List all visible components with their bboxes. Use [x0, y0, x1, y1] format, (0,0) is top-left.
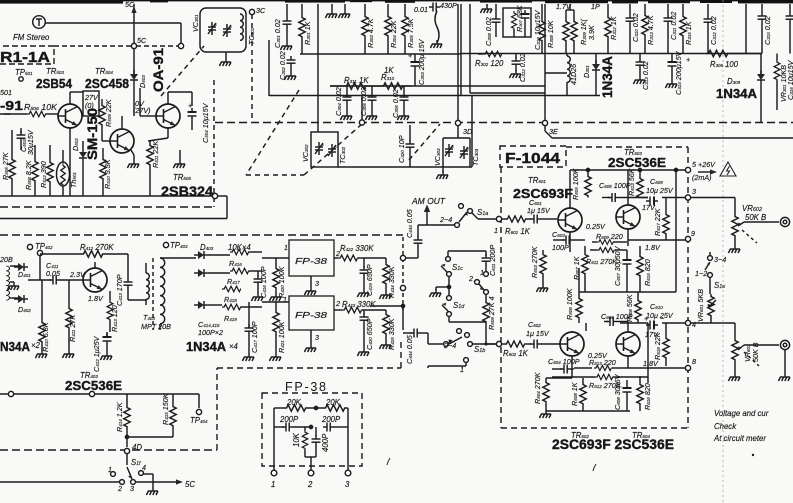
svg-text:C419 650P: C419 650P — [365, 264, 374, 296]
svg-text:501: 501 — [0, 88, 12, 97]
svg-text:R605 100K: R605 100K — [571, 167, 580, 200]
svg-text:R609 27K 4: R609 27K 4 — [487, 296, 496, 330]
svg-text:R505 27K: R505 27K — [1, 151, 10, 180]
svg-text:R308 10K: R308 10K — [546, 19, 555, 48]
svg-text:Voltage and cur: Voltage and cur — [714, 409, 769, 418]
svg-text:2~4: 2~4 — [443, 341, 456, 350]
svg-text:2: 2 — [307, 480, 313, 489]
svg-text:(2mA): (2mA) — [692, 173, 712, 182]
svg-text:R509 22K: R509 22K — [104, 98, 113, 127]
svg-text:R412 270K: R412 270K — [80, 243, 114, 252]
svg-text:SM-150: SM-150 — [84, 108, 100, 160]
svg-text:R411 27K: R411 27K — [68, 314, 77, 342]
svg-text:3~4: 3~4 — [714, 255, 726, 264]
svg-text:C320 10P: C320 10P — [397, 135, 406, 163]
svg-text:C444 0.05: C444 0.05 — [405, 208, 414, 238]
svg-text:R425 330K: R425 330K — [387, 317, 396, 350]
svg-text:×2: ×2 — [31, 341, 41, 350]
svg-text:3C: 3C — [256, 6, 266, 15]
svg-text:R607 1K: R607 1K — [572, 255, 581, 280]
svg-text:C417 100P: C417 100P — [250, 321, 259, 353]
svg-text:2SC693F: 2SC693F — [513, 186, 573, 201]
svg-text:R301 1K: R301 1K — [303, 20, 312, 45]
svg-text:C605 100P: C605 100P — [599, 181, 631, 190]
svg-text:1.8V: 1.8V — [643, 359, 659, 368]
svg-text:C312 0.02: C312 0.02 — [709, 16, 718, 45]
svg-text:R311 1K: R311 1K — [344, 76, 369, 85]
svg-text:R512 390: R512 390 — [39, 161, 48, 188]
svg-text:C310 0.02: C310 0.02 — [631, 13, 640, 42]
svg-text:2: 2 — [468, 274, 473, 283]
svg-text:1~2: 1~2 — [695, 269, 707, 278]
svg-text:R315 1K: R315 1K — [684, 20, 693, 45]
svg-text:R608 1K: R608 1K — [570, 381, 579, 406]
svg-text:3: 3 — [315, 279, 319, 288]
svg-text:C304 0.02: C304 0.02 — [334, 87, 343, 116]
svg-text:C444 0.05: C444 0.05 — [405, 334, 414, 364]
svg-text:R434 330K: R434 330K — [387, 265, 396, 298]
svg-text:2SC458: 2SC458 — [85, 76, 129, 91]
svg-text:R604 270K: R604 270K — [533, 371, 542, 404]
svg-text:R616 820: R616 820 — [643, 383, 652, 410]
svg-text:2: 2 — [117, 484, 122, 493]
svg-text:R609 220: R609 220 — [596, 232, 623, 241]
svg-text:R414 1.2K: R414 1.2K — [115, 401, 124, 432]
svg-text:FP-38: FP-38 — [295, 257, 328, 266]
svg-text:1: 1 — [494, 226, 498, 235]
svg-text:C305 0.02: C305 0.02 — [359, 87, 368, 116]
svg-text:R415 150K: R415 150K — [161, 392, 170, 425]
svg-text:R618 22K: R618 22K — [653, 331, 662, 360]
svg-text:R615 820: R615 820 — [643, 259, 652, 286]
svg-text:3E: 3E — [549, 127, 558, 136]
svg-text:2~4: 2~4 — [439, 215, 452, 224]
svg-text:−: − — [660, 314, 664, 323]
svg-text:C312 0.02: C312 0.02 — [518, 53, 527, 82]
svg-text:100P: 100P — [552, 243, 569, 252]
svg-text:+: + — [644, 314, 648, 323]
svg-text:1: 1 — [108, 465, 112, 474]
svg-text:C413 170P: C413 170P — [115, 274, 124, 306]
svg-text:R410 6.8K: R410 6.8K — [41, 321, 50, 352]
svg-text:R613 220: R613 220 — [589, 358, 616, 367]
svg-text:20B: 20B — [0, 255, 13, 264]
svg-text:C604 100P: C604 100P — [548, 357, 580, 366]
svg-text:8: 8 — [692, 357, 696, 366]
svg-text:200P: 200P — [321, 415, 341, 424]
svg-text:R1-1A: R1-1A — [0, 49, 50, 66]
svg-text:R303 4.7K: R303 4.7K — [366, 17, 375, 48]
svg-text:1: 1 — [284, 243, 288, 252]
svg-text:2SC536E: 2SC536E — [65, 378, 122, 393]
svg-text:R601 1K: R601 1K — [505, 227, 531, 236]
svg-text:1.7V: 1.7V — [556, 2, 572, 11]
svg-text:20K: 20K — [325, 398, 341, 407]
svg-text:10μ 25V: 10μ 25V — [646, 186, 674, 195]
svg-text:3D: 3D — [463, 127, 472, 136]
svg-text:+: + — [686, 55, 690, 64]
svg-text:2.3V: 2.3V — [69, 270, 86, 279]
svg-text:FM Stereo: FM Stereo — [13, 33, 50, 42]
svg-text:(27V): (27V) — [133, 106, 151, 115]
svg-text:C611 200P: C611 200P — [488, 245, 497, 276]
svg-text:1N34A: 1N34A — [186, 339, 227, 354]
svg-text:R420 100K: R420 100K — [277, 265, 286, 298]
svg-text:3: 3 — [345, 480, 350, 489]
svg-text:F-1044: F-1044 — [505, 150, 561, 167]
svg-text:2SB54: 2SB54 — [36, 76, 73, 91]
svg-text:C302 0.02: C302 0.02 — [278, 51, 287, 80]
svg-text:R508 8.2K: R508 8.2K — [24, 159, 33, 190]
svg-text:2SB324: 2SB324 — [161, 183, 213, 199]
svg-text:C301 0.02: C301 0.02 — [273, 19, 282, 48]
svg-text:N34A: N34A — [0, 339, 31, 354]
svg-text:200P: 200P — [279, 415, 299, 424]
svg-text:50K B: 50K B — [751, 342, 760, 362]
svg-text:C306 0.02: C306 0.02 — [391, 89, 400, 118]
svg-text:0.05: 0.05 — [46, 269, 61, 278]
svg-text:R304 22K: R304 22K — [389, 19, 398, 48]
svg-text:2: 2 — [335, 249, 340, 258]
svg-text:C308 0.02: C308 0.02 — [484, 17, 493, 46]
svg-text:1: 1 — [460, 365, 464, 374]
svg-text:R421 100K: R421 100K — [277, 320, 286, 353]
svg-text:3: 3 — [130, 484, 134, 493]
svg-text:C311 0.02: C311 0.02 — [669, 12, 678, 40]
svg-text:3: 3 — [315, 333, 319, 342]
svg-text:1: 1 — [271, 480, 275, 489]
svg-text:R313 4.7K: R313 4.7K — [646, 14, 655, 45]
svg-text:1: 1 — [480, 268, 484, 277]
svg-text:1.8V: 1.8V — [645, 243, 661, 252]
svg-text:R606 100K: R606 100K — [565, 287, 574, 320]
svg-text:C315 0.02: C315 0.02 — [763, 16, 772, 45]
svg-text:R423 330K: R423 330K — [342, 300, 376, 309]
svg-text:4D: 4D — [132, 443, 142, 452]
svg-text:C416 100P: C416 100P — [259, 266, 268, 298]
svg-text:MPT 20B: MPT 20B — [141, 322, 171, 331]
svg-text:×4: ×4 — [229, 342, 239, 351]
svg-text:1μ 15V: 1μ 15V — [526, 329, 550, 338]
svg-text:FP-38: FP-38 — [295, 311, 328, 320]
svg-text:R307 68K: R307 68K — [515, 4, 524, 32]
svg-text:R422 330K: R422 330K — [340, 244, 374, 253]
svg-text:R312 1K: R312 1K — [609, 15, 618, 40]
svg-text:1N34A: 1N34A — [716, 86, 758, 101]
svg-text:R511 22K: R511 22K — [151, 140, 160, 168]
svg-text:+: + — [408, 51, 412, 60]
svg-text:1μ 15V: 1μ 15V — [527, 206, 551, 215]
svg-text:Check: Check — [714, 422, 737, 431]
svg-text:C313 0.02: C313 0.02 — [641, 61, 650, 90]
svg-text:10K: 10K — [292, 432, 301, 447]
svg-text:2SC693F 2SC536E: 2SC693F 2SC536E — [552, 436, 674, 452]
svg-text:R510 3.3K: R510 3.3K — [103, 158, 112, 189]
svg-text:At circuit meter: At circuit meter — [713, 434, 766, 443]
svg-text:FP-38: FP-38 — [285, 380, 326, 394]
svg-text:AM OUT: AM OUT — [411, 197, 446, 206]
svg-text:100P×2: 100P×2 — [198, 328, 223, 337]
svg-text:OA-91: OA-91 — [150, 48, 166, 92]
svg-text:R302 120: R302 120 — [475, 59, 504, 68]
svg-text:C420 650P: C420 650P — [365, 318, 374, 350]
svg-text:3: 3 — [692, 187, 696, 196]
svg-text:R306 100: R306 100 — [710, 60, 739, 69]
svg-text:20K: 20K — [286, 398, 302, 407]
svg-text:5C: 5C — [185, 480, 195, 489]
svg-text:2: 2 — [335, 299, 340, 308]
svg-text:50K B: 50K B — [745, 213, 766, 222]
svg-text:1P: 1P — [591, 2, 600, 11]
svg-text:5C: 5C — [137, 36, 147, 45]
svg-text:0.25V: 0.25V — [586, 222, 606, 231]
svg-text:1N34A: 1N34A — [599, 56, 615, 98]
svg-text:9: 9 — [691, 229, 695, 238]
svg-text:R603 270K: R603 270K — [530, 245, 539, 278]
svg-text:4: 4 — [142, 463, 146, 472]
svg-text:3.9K: 3.9K — [587, 24, 596, 40]
svg-text:1K: 1K — [384, 66, 394, 75]
svg-text:R506 10K: R506 10K — [24, 103, 58, 112]
svg-text:R602 1K: R602 1K — [503, 349, 529, 358]
svg-text:+: + — [188, 101, 192, 110]
svg-text:R413 120: R413 120 — [110, 305, 119, 332]
svg-text:1.8V: 1.8V — [88, 294, 104, 303]
svg-text:41D26: 41D26 — [569, 64, 578, 85]
svg-text:R617 22K: R617 22K — [653, 207, 662, 236]
svg-text:5 +26V: 5 +26V — [692, 160, 716, 169]
svg-text:30μ15V: 30μ15V — [26, 129, 35, 155]
svg-text:-91: -91 — [0, 98, 23, 113]
svg-text:0.01: 0.01 — [414, 5, 428, 14]
svg-text:R305 7.5K: R305 7.5K — [406, 17, 415, 48]
svg-text:430P: 430P — [440, 1, 457, 10]
svg-text:VR601 5KB: VR601 5KB — [696, 289, 705, 322]
svg-text:C606 100P: C606 100P — [601, 312, 633, 321]
svg-text:2SC536E: 2SC536E — [608, 155, 666, 170]
svg-text:400P: 400P — [321, 433, 330, 452]
